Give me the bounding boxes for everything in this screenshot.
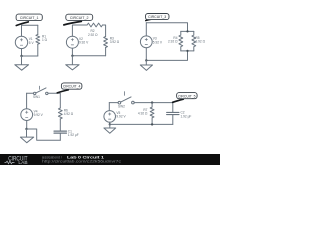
svg-text:9.92 V: 9.92 V [79,41,89,45]
wire left lower c3 [145,48,147,61]
wire left lower c2 [71,48,73,56]
svg-text:4.92 Ω: 4.92 Ω [138,112,148,116]
wire left upper c1 [21,25,23,36]
svg-text:CIRCUIT_4: CIRCUIT_4 [63,85,81,89]
balloon CIRCUIT_5 [173,99,184,102]
balloon CIRCUIT_3 [146,18,157,20]
node c2 [71,55,73,57]
svg-text:http://circuitlab.com/c22k56ud: http://circuitlab.com/c22k56udnvr7c [42,159,121,163]
node R7 bottom [151,123,153,125]
ground c2 [66,56,79,70]
svg-text:1.92 µF: 1.92 µF [68,133,79,137]
node c3 [145,59,147,61]
node c5 [109,123,111,125]
wire left lower c1 [21,49,23,56]
svg-text:1.92 µF: 1.92 µF [181,114,192,118]
wire bottom c3 [146,51,187,61]
wire bottom step c4 [27,129,61,140]
svg-text:1 Ω: 1 Ω [42,38,48,42]
switch SW1 [34,92,36,94]
svg-text:4.92 Ω: 4.92 Ω [64,112,74,116]
svg-text:5.92 V: 5.92 V [153,40,163,44]
node c3 rail bottom [186,50,188,52]
resistor R1 [36,35,40,45]
wire left upper c3 [145,23,147,36]
wire bottom c5 [110,123,173,125]
wire left upper c2 [71,25,73,36]
wire top c1 [22,24,38,26]
svg-text:3.92 Ω: 3.92 Ω [110,40,120,44]
wire bottom c1 [22,55,38,57]
resistor R6 [58,108,62,119]
wire C2 bottom lead [172,115,174,124]
ground c4 [20,129,33,143]
wire top c3 [146,23,187,32]
wire top left c4 [27,92,34,94]
wire R6 to C1 [59,119,61,131]
wire left c5 [108,103,110,111]
resistor R7 [150,103,154,125]
svg-text:3.92 Ω: 3.92 Ω [196,40,206,44]
ground c3 [140,60,152,70]
wire top left c5 [109,102,118,104]
CircuitLab logo [5,157,28,167]
ground c1 [15,56,29,70]
ground c5 [104,124,116,133]
wire top right c2 [103,25,106,37]
node c1 [20,55,22,57]
voltage source V2 [66,36,78,48]
balloon CIRCUIT_2 [64,21,81,25]
svg-text:CIRCUIT_5: CIRCUIT_5 [178,94,196,98]
wire bottom c2 [72,55,105,57]
note balloons [16,14,197,103]
voltage source V4 [21,109,33,121]
wire left c4 [26,93,28,108]
parallel rail bottom c3 [181,50,194,52]
voltage source V3 [140,36,152,48]
resistor R4 [179,31,183,51]
capacitor C2 [167,112,179,114]
wire source to node c4 [26,121,28,130]
resistor R5 [192,31,196,51]
wire right lower c2 [105,48,107,56]
voltage source V5 [104,111,116,123]
svg-text:9.92 V: 9.92 V [116,115,126,119]
svg-text:SW1: SW1 [33,95,40,99]
parallel rail top c3 [181,30,194,32]
svg-text:CIRCUIT_3: CIRCUIT_3 [148,15,166,19]
wire top right c4 [48,93,60,108]
svg-text:CIRCUIT_1: CIRCUIT_1 [20,16,39,20]
wire C1 to bottom c4 [59,134,61,141]
node R7 top [151,101,153,103]
svg-text:CIRCUIT_2: CIRCUIT_2 [70,16,89,20]
wire top left c2 [72,24,87,26]
resistor R3 [104,37,108,48]
svg-text:2.92 Ω: 2.92 Ω [168,40,178,44]
svg-text:9.92 V: 9.92 V [34,113,44,117]
voltage source V1 [15,36,27,48]
balloon CIRCUIT_1 [16,22,28,26]
capacitor C1 [54,131,67,133]
node c3 rail top [186,30,188,32]
svg-text:SW2: SW2 [118,105,125,109]
footer bar [0,154,220,165]
wire right c1 [37,25,39,56]
balloon CIRCUIT_4 [57,90,68,93]
node c4 [25,128,27,130]
switch SW2 [118,101,121,104]
wire source to node c5 [109,122,111,124]
svg-text:2.92 Ω: 2.92 Ω [88,33,98,37]
resistor R2 [87,23,102,27]
svg-text:LAB: LAB [18,160,27,165]
component labels [29,29,206,137]
wire top right c5 [134,103,173,112]
